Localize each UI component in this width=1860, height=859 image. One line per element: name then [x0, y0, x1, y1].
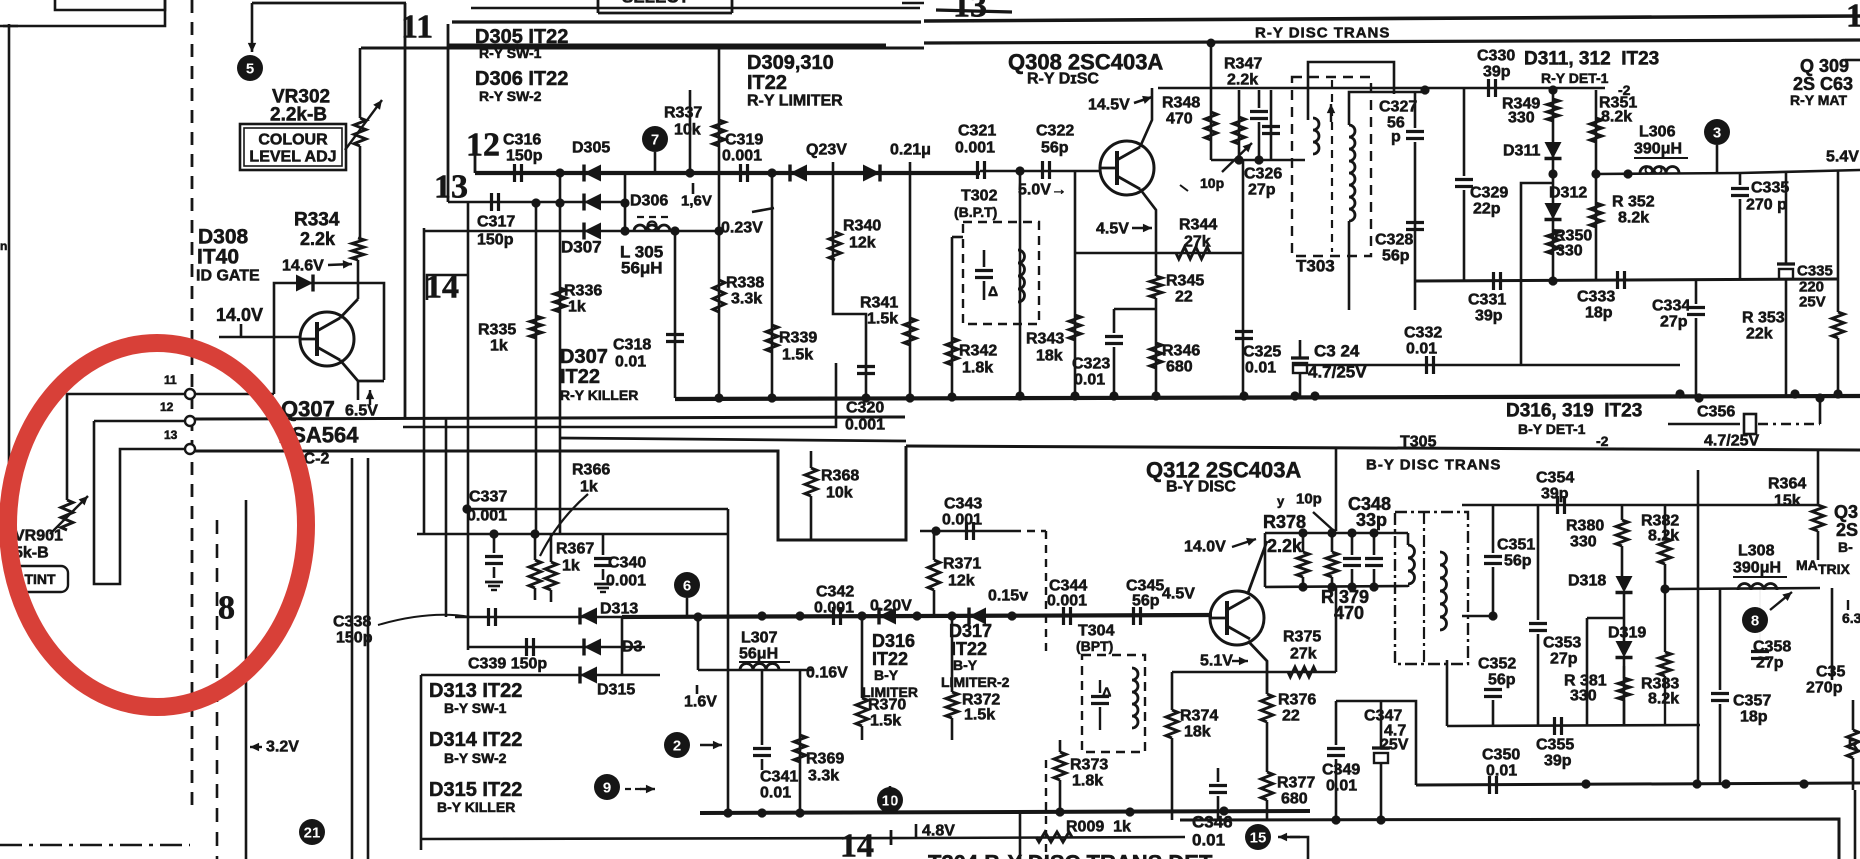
svg-text:R368: R368 [821, 468, 859, 485]
wire C352 left vert [1446, 660, 1449, 726]
svg-text:TRIX: TRIX [1818, 561, 1851, 577]
resistor R368 [805, 468, 817, 496]
wire tank left vert [1264, 533, 1267, 587]
diode D308 [296, 275, 313, 292]
wire Q308 collector [1140, 88, 1152, 147]
svg-text:C346: C346 [1192, 813, 1233, 832]
wire vertical x405 [404, 3, 407, 419]
wire vertical x468 [467, 202, 470, 650]
wire C343 dash corner [1013, 530, 1046, 532]
wire VR302 to R334 [359, 146, 362, 238]
capacitor T302 internal cap [975, 269, 993, 272]
svg-text:R369: R369 [806, 751, 844, 768]
svg-text:39p: 39p [1475, 308, 1503, 325]
svg-text:D316: D316 [872, 631, 915, 651]
svg-text:B-: B- [1838, 539, 1853, 555]
wire det rail y616 [1462, 615, 1493, 618]
svg-text:0.001: 0.001 [955, 140, 995, 157]
svg-text:Δ: Δ [988, 283, 998, 299]
capacitor C320 [857, 365, 875, 368]
svg-text:C316: C316 [503, 132, 541, 149]
svg-text:39p: 39p [1483, 64, 1511, 81]
pin 11 circle [185, 389, 195, 399]
svg-text:2: 2 [673, 738, 681, 755]
resistor R348 [1205, 112, 1217, 140]
svg-text:C343: C343 [944, 496, 982, 513]
junction blob 10 [594, 774, 620, 800]
capacitor C347 bracket [1336, 701, 1416, 785]
junction d [1207, 39, 1216, 48]
wire vertical x675 [674, 230, 677, 398]
svg-text:680: 680 [1281, 791, 1308, 808]
svg-text:470: 470 [1334, 603, 1364, 623]
wire dashed vertical boundary [191, 0, 194, 812]
svg-text:2.2k: 2.2k [1227, 72, 1258, 89]
svg-text:330: 330 [1556, 243, 1583, 260]
capacitor C341 [753, 747, 771, 750]
junction blob 3 [1704, 119, 1730, 145]
svg-text:14.0V: 14.0V [1184, 539, 1226, 556]
svg-text:C317: C317 [477, 214, 515, 231]
wire vertical x1075 [1074, 171, 1077, 396]
svg-text:390μH: 390μH [1634, 141, 1682, 158]
wire D311 column [1552, 90, 1555, 281]
wire top double line B [924, 40, 1860, 43]
svg-text:(B.P.T): (B.P.T) [954, 204, 997, 220]
capacitor C358 [1751, 650, 1769, 653]
resistor R382 [1659, 538, 1671, 564]
svg-text:D319: D319 [1608, 625, 1646, 642]
svg-text:C340: C340 [608, 555, 646, 572]
resistor right edge [1847, 730, 1859, 758]
svg-text:0.01: 0.01 [1074, 372, 1105, 389]
capacitor C336 [1777, 262, 1795, 265]
svg-text:C354: C354 [1536, 470, 1574, 487]
wire vertical x719 [718, 45, 721, 398]
capacitor T304 internal cap [1091, 695, 1109, 698]
svg-text:R-Y LIMITER: R-Y LIMITER [747, 93, 843, 110]
inductor L306 [1640, 167, 1679, 174]
capacitor C318 [666, 333, 684, 336]
junction blob 9 [664, 732, 690, 758]
wire junction row y160 [1211, 159, 1305, 162]
svg-text:B-Y DISC: B-Y DISC [1166, 479, 1236, 496]
resistor R379 [1326, 552, 1338, 577]
svg-text:Q23V: Q23V [806, 142, 847, 159]
svg-text:R364: R364 [1768, 476, 1806, 493]
svg-text:IT22: IT22 [872, 649, 908, 669]
wire BY det bottom rail [1416, 783, 1860, 785]
wire vertical x690 [689, 90, 692, 173]
svg-text:6.3: 6.3 [1842, 610, 1860, 626]
inductor T305 secondary [1440, 552, 1447, 630]
wire diode row3 [424, 230, 719, 233]
wire C326b column [1270, 90, 1273, 160]
svg-text:22k: 22k [1746, 326, 1773, 343]
resistor R350 [1547, 230, 1559, 254]
capacitor C351 [1484, 555, 1502, 558]
svg-text:14: 14 [840, 828, 874, 859]
svg-text:R366: R366 [572, 462, 610, 479]
inductor T304 coil [1132, 668, 1138, 728]
svg-text:C333: C333 [1577, 289, 1615, 306]
wire long vertical x1336 [1335, 447, 1338, 531]
node 3.2V label [250, 746, 262, 748]
diode D314 [584, 639, 601, 656]
capacitor C346b [1209, 784, 1227, 787]
resistor R351 [1590, 118, 1602, 142]
wire upper bottom bus [675, 396, 1860, 399]
wire diode join vertical [559, 173, 562, 203]
annotation red circle [8, 343, 306, 707]
wire pin12 long line [195, 417, 905, 419]
diode D311 [1545, 142, 1562, 159]
svg-text:T304 B-Y DISC TRANS DET: T304 B-Y DISC TRANS DET [928, 851, 1213, 859]
svg-text:14.6V: 14.6V [282, 258, 324, 275]
svg-text:330: 330 [1570, 688, 1597, 705]
wire C338 leader [378, 615, 470, 625]
capacitor C354 [1556, 496, 1559, 514]
svg-text:0.001: 0.001 [722, 148, 762, 165]
svg-text:C351: C351 [1497, 537, 1535, 554]
capacitor C329 [1455, 178, 1473, 181]
inductor T303 primary [1313, 118, 1319, 154]
junction blob 21 [299, 819, 325, 845]
svg-text:10k: 10k [674, 122, 701, 139]
svg-text:470: 470 [1166, 111, 1193, 128]
transformer T303 box [1292, 77, 1371, 256]
svg-text:56p: 56p [1504, 553, 1532, 570]
svg-text:10k: 10k [826, 485, 853, 502]
svg-text:3.3k: 3.3k [808, 768, 839, 785]
svg-text:1.5k: 1.5k [870, 713, 901, 730]
resistor R381 [1618, 678, 1630, 700]
svg-text:R341: R341 [860, 295, 898, 312]
svg-text:0.01: 0.01 [1326, 778, 1357, 795]
resistor R374 [1166, 710, 1178, 738]
svg-text:1.5k: 1.5k [867, 311, 898, 328]
wire diode row1 [475, 171, 980, 175]
svg-text:C350: C350 [1482, 747, 1520, 764]
resistor R349 [1547, 99, 1559, 121]
svg-text:25V: 25V [1380, 737, 1409, 754]
svg-text:C321: C321 [958, 123, 996, 140]
svg-text:18p: 18p [1740, 709, 1768, 726]
svg-text:R367: R367 [556, 541, 594, 558]
wire stem to junction blob [251, 3, 254, 52]
svg-text:D309,310: D309,310 [747, 52, 834, 74]
wire emitter lower [1155, 298, 1158, 396]
svg-text:R-Y SW-1: R-Y SW-1 [479, 45, 542, 61]
wire T302 vertical [1019, 171, 1022, 396]
svg-text:0.001: 0.001 [942, 512, 982, 529]
wire right edge stub1 [1845, 59, 1860, 62]
junction g [931, 526, 940, 535]
svg-text:21: 21 [304, 825, 321, 842]
capacitor C355 [1553, 717, 1556, 735]
capacitor C342 [832, 607, 835, 625]
svg-text:330: 330 [1570, 534, 1597, 551]
svg-text:5.4V: 5.4V [1826, 149, 1859, 166]
capacitor C328 [1406, 221, 1424, 224]
svg-text:C357: C357 [1733, 693, 1771, 710]
junction blob 13 [674, 572, 700, 598]
svg-text:11: 11 [164, 373, 177, 387]
svg-text:15: 15 [1846, 0, 1860, 35]
svg-text:C356: C356 [1697, 404, 1735, 421]
svg-text:C322: C322 [1036, 123, 1074, 140]
svg-text:4.7/25V: 4.7/25V [1308, 363, 1367, 382]
resistor R338 [713, 280, 725, 312]
svg-text:0.23V: 0.23V [721, 220, 763, 237]
wire L308 rail [1665, 588, 1820, 589]
capacitor C357 [1711, 692, 1729, 695]
svg-text:1k: 1k [580, 479, 598, 496]
svg-text:R346: R346 [1162, 343, 1200, 360]
capacitor C326 [1250, 110, 1268, 113]
svg-text:C327: C327 [1379, 99, 1417, 116]
svg-text:ID GATE: ID GATE [196, 268, 260, 285]
svg-text:0.16V: 0.16V [806, 665, 848, 682]
svg-text:C341: C341 [760, 769, 798, 786]
svg-text:0.001: 0.001 [814, 600, 854, 617]
svg-text:13: 13 [434, 169, 468, 206]
svg-text:T303: T303 [1296, 257, 1335, 276]
svg-text:R370: R370 [868, 697, 906, 714]
svg-text:C325: C325 [1243, 344, 1281, 361]
svg-text:0.01: 0.01 [1192, 831, 1225, 850]
wire Q312 collector [1248, 541, 1267, 593]
resistor R346 [1150, 343, 1162, 368]
wire bottom line left [421, 838, 919, 839]
wire top feed horizontal [252, 2, 406, 5]
wire R009 line [919, 837, 1185, 838]
capacitor C332 [1425, 356, 1428, 374]
svg-text:C326: C326 [1244, 166, 1282, 183]
svg-text:270p: 270p [1806, 680, 1843, 697]
svg-text:8.2k: 8.2k [1601, 109, 1632, 126]
capacitor C348tr [1343, 557, 1361, 560]
wire BY row1 [455, 616, 660, 619]
resistor R344 [1176, 247, 1210, 259]
svg-text:1k: 1k [568, 299, 586, 316]
wire C332 row [1292, 364, 1680, 367]
svg-text:R371: R371 [943, 556, 981, 573]
svg-text:56p: 56p [1132, 593, 1160, 610]
wire R366 leader [540, 494, 588, 556]
node 6.5V arrow [369, 390, 371, 405]
wire vertical x772 [771, 173, 774, 398]
wire L307 row [698, 669, 812, 672]
svg-text:150p: 150p [506, 148, 543, 165]
wire vertical x838 [833, 173, 866, 398]
diode D313 [580, 608, 597, 625]
svg-text:1.5k: 1.5k [964, 707, 995, 724]
resistor R377 [1261, 772, 1273, 800]
capacitor C335 [1731, 187, 1749, 190]
resistor R369 [794, 735, 806, 762]
svg-text:y: y [1277, 494, 1285, 509]
svg-text:39p: 39p [1544, 753, 1572, 770]
capacitor C343 [965, 522, 968, 540]
wire section divider right [906, 446, 1860, 450]
svg-text:3.3k: 3.3k [731, 291, 762, 308]
wire collector bracket [1158, 87, 1300, 90]
resistor R378 [1297, 552, 1309, 577]
wire secondary bottom [1348, 221, 1351, 310]
diode D316 [879, 608, 896, 625]
svg-text:4.7/25V: 4.7/25V [1704, 433, 1759, 450]
diode D312 [1545, 203, 1562, 220]
svg-text:C352: C352 [1478, 656, 1516, 673]
svg-text:56μH: 56μH [621, 259, 663, 278]
inductor L307 [740, 664, 779, 671]
svg-text:0.01: 0.01 [760, 785, 791, 802]
svg-text:C335: C335 [1751, 180, 1789, 197]
svg-text:8.2k: 8.2k [1618, 210, 1649, 227]
wire C352 rail [1447, 725, 1700, 726]
svg-text:2.2k: 2.2k [1267, 536, 1303, 556]
svg-text:0.15v: 0.15v [988, 588, 1028, 605]
wire BY diode join [621, 617, 624, 675]
wire vertical x1587 [1586, 618, 1589, 726]
capacitor C330 [1487, 79, 1490, 97]
svg-text:0.01: 0.01 [1486, 763, 1517, 780]
wire vertical x536 [535, 203, 538, 534]
resistor R340 [829, 232, 841, 260]
svg-text:R 352: R 352 [1612, 194, 1655, 211]
junction h [723, 808, 732, 817]
resistor R335 [530, 316, 542, 338]
svg-text:C328: C328 [1375, 232, 1413, 249]
wire vertical x910 [909, 173, 912, 398]
svg-text:D311, 312 IT23: D311, 312 IT23 [1524, 49, 1659, 70]
capacitor C344 [1062, 607, 1065, 625]
resistor R336 [554, 288, 566, 312]
svg-text:TINT: TINT [24, 571, 56, 587]
svg-text:R336: R336 [564, 283, 602, 300]
svg-text:10p: 10p [1200, 175, 1224, 191]
svg-text:2.2k-B: 2.2k-B [270, 105, 327, 126]
potentiometer VR302 element [354, 118, 366, 146]
colour level adj box [240, 124, 346, 170]
wire pin13 left loop [94, 421, 185, 584]
wire top double line A [924, 16, 1860, 21]
wire section second line [452, 20, 921, 23]
wire det right rail [1740, 170, 1860, 173]
svg-text:1k: 1k [490, 338, 508, 355]
resistor R334 [352, 238, 364, 260]
junction b [685, 168, 694, 177]
diode D305 [584, 165, 601, 182]
svg-text:D315: D315 [597, 682, 635, 699]
svg-text:27p: 27p [1248, 182, 1276, 199]
diode D307 [584, 223, 601, 240]
svg-text:8: 8 [1751, 613, 1759, 630]
svg-text:8: 8 [218, 590, 235, 627]
svg-text:2.2k: 2.2k [300, 229, 336, 249]
wire R342 vertical [951, 237, 954, 396]
svg-text:D3: D3 [622, 639, 643, 656]
inductor L308 [1738, 584, 1777, 591]
wire det mid rail [1415, 279, 1838, 281]
resistor R343 [1069, 315, 1081, 340]
svg-text:33p: 33p [1356, 510, 1387, 530]
svg-text:56p: 56p [1041, 140, 1069, 157]
svg-text:Δ: Δ [1102, 685, 1111, 700]
inductor T305 core [1423, 512, 1425, 664]
wire vertical x1046b [1045, 760, 1047, 859]
svg-text:39p: 39p [1541, 486, 1569, 503]
wire R344 row [1075, 252, 1244, 255]
wire BY row3 [421, 674, 660, 677]
wire BY det top rail [1462, 504, 1818, 507]
svg-text:R-Y DɪSC: R-Y DɪSC [1027, 71, 1099, 88]
transistor Q312 [1210, 591, 1264, 645]
svg-text:9: 9 [603, 780, 611, 797]
svg-text:15: 15 [1250, 830, 1267, 847]
wire vertical x424 [423, 228, 426, 534]
svg-text:COLOUR: COLOUR [258, 132, 328, 149]
svg-text:R348: R348 [1162, 95, 1200, 112]
svg-text:R378: R378 [1263, 512, 1306, 532]
svg-text:R373: R373 [1070, 757, 1108, 774]
wire vertical x1697 [1697, 470, 1700, 784]
wire det top rail [1300, 87, 1605, 90]
svg-text:27p: 27p [1550, 651, 1578, 668]
svg-text:C332: C332 [1404, 325, 1442, 342]
capacitor C340 [594, 557, 612, 560]
wire R348 column [1210, 43, 1213, 160]
capacitor C353 [1529, 622, 1547, 625]
wire C343 row [920, 530, 1013, 533]
svg-text:D306: D306 [630, 193, 668, 210]
resistor R347 [1233, 117, 1245, 144]
svg-text:R-Y KILLER: R-Y KILLER [560, 387, 638, 403]
svg-text:T302: T302 [961, 188, 998, 205]
svg-text:D307: D307 [561, 238, 602, 257]
svg-text:5.0V→: 5.0V→ [1018, 182, 1067, 199]
inductor T303 core [1331, 80, 1333, 252]
wire bottom rail right [1180, 819, 1839, 859]
svg-text:680: 680 [1166, 359, 1193, 376]
resistor R352 [1590, 203, 1602, 227]
svg-text:1.8k: 1.8k [962, 360, 993, 377]
wire mesh y534 [417, 533, 728, 536]
wire BY main bus [622, 615, 1212, 617]
wire pin12 left [94, 420, 185, 423]
svg-text:330: 330 [1508, 110, 1535, 127]
wire pin13 long line [195, 446, 906, 540]
wire divider second line [560, 438, 906, 441]
svg-text:12k: 12k [849, 235, 876, 252]
svg-text:R340: R340 [843, 218, 881, 235]
svg-text:R342: R342 [959, 343, 997, 360]
svg-text:D318: D318 [1568, 573, 1606, 590]
svg-text:C331: C331 [1468, 292, 1506, 309]
svg-text:IT22: IT22 [951, 639, 987, 659]
wire R347 column [1238, 90, 1241, 160]
pin 13 circle [185, 444, 195, 454]
svg-text:R347: R347 [1224, 56, 1262, 73]
svg-text:R345: R345 [1166, 273, 1204, 290]
svg-text:C330: C330 [1477, 48, 1515, 65]
svg-text:0.21μ: 0.21μ [890, 142, 931, 159]
svg-text:R376: R376 [1278, 692, 1316, 709]
svg-text:C342: C342 [816, 584, 854, 601]
svg-text:D307: D307 [560, 346, 608, 368]
svg-text:R344: R344 [1179, 217, 1217, 234]
